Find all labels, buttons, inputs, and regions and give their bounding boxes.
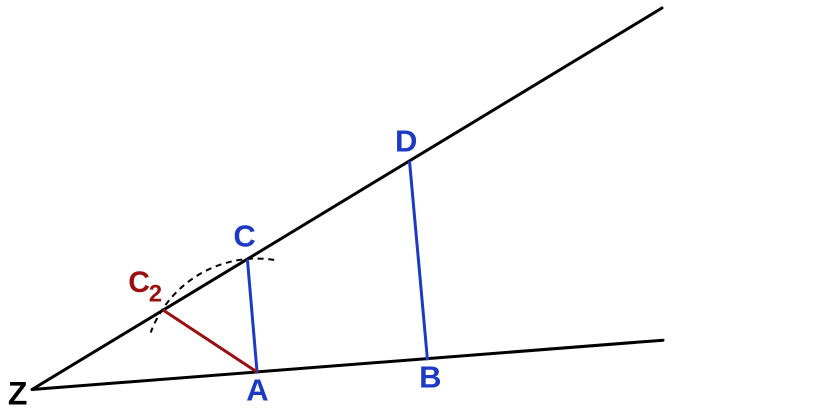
svg-text:A: A [246,373,268,408]
svg-text:Z: Z [8,375,28,411]
segment B D (blue) [410,161,428,360]
svg-text:C: C [233,219,255,254]
svg-text:D: D [395,123,417,158]
svg-text:2: 2 [149,280,162,307]
segment A C (blue) [247,259,257,373]
svg-text:C: C [128,266,150,299]
svg-text:B: B [419,359,441,394]
ray Z upper (through C2, C, D) [32,8,662,390]
segment A C2 (dark red) [163,310,257,372]
dashed compass arc centered at A through C and C2 [151,259,275,333]
ray Z lower (through A, B) [32,340,663,389]
